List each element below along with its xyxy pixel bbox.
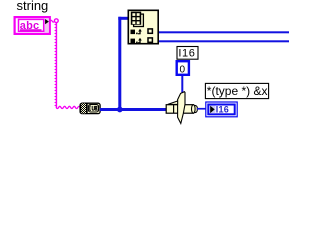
funnel body: [178, 92, 185, 124]
row 2 index terminal: [131, 39, 136, 44]
string wire bottom horizontal: [56, 106, 80, 108]
pipe end cap: [192, 105, 196, 114]
indicator label box: [205, 83, 268, 98]
string wire horizontal from control: [50, 20, 54, 22]
pipe collar line: [173, 105, 175, 114]
row 1 dot: [136, 33, 138, 35]
row 1 index terminal: [131, 30, 136, 34]
type cast function U2: [166, 92, 197, 124]
type wire from constant: [181, 76, 183, 96]
element wire 2: [159, 40, 289, 42]
string control STR1: [15, 17, 50, 34]
string wire corner loop: [54, 19, 58, 23]
I16 type label box: [177, 47, 198, 60]
row 1 element output square: [148, 29, 152, 33]
row 2 dot: [136, 42, 138, 44]
array glyph: [131, 12, 141, 25]
row 2 arrow: [138, 38, 142, 44]
string wire vertical: [55, 22, 57, 107]
array glyph shadow: [134, 14, 144, 26]
u8 array wire to type cast: [100, 108, 166, 111]
cast output wire: [197, 108, 206, 110]
string-to-byte-array function F1: [80, 103, 100, 113]
funnel mouth rim left: [168, 101, 178, 104]
wire junction: [117, 107, 123, 113]
svg-text:I16: I16: [178, 48, 195, 60]
output stub: [192, 105, 197, 112]
svg-text:*(type *) &x: *(type *) &x: [207, 84, 268, 98]
u8 array wire branch up: [118, 17, 121, 110]
pipe body: [166, 105, 193, 114]
svg-text:I16: I16: [216, 104, 229, 114]
row 1 arrow: [138, 29, 142, 35]
row 2 element output square: [148, 38, 152, 42]
index array function U1: [128, 10, 158, 43]
svg-text:0: 0: [180, 65, 186, 76]
I16 numeric constant C1: [177, 61, 189, 75]
I16 indicator terminal T1: [206, 102, 237, 117]
element wire 1: [159, 31, 289, 33]
svg-text:string: string: [17, 0, 49, 13]
